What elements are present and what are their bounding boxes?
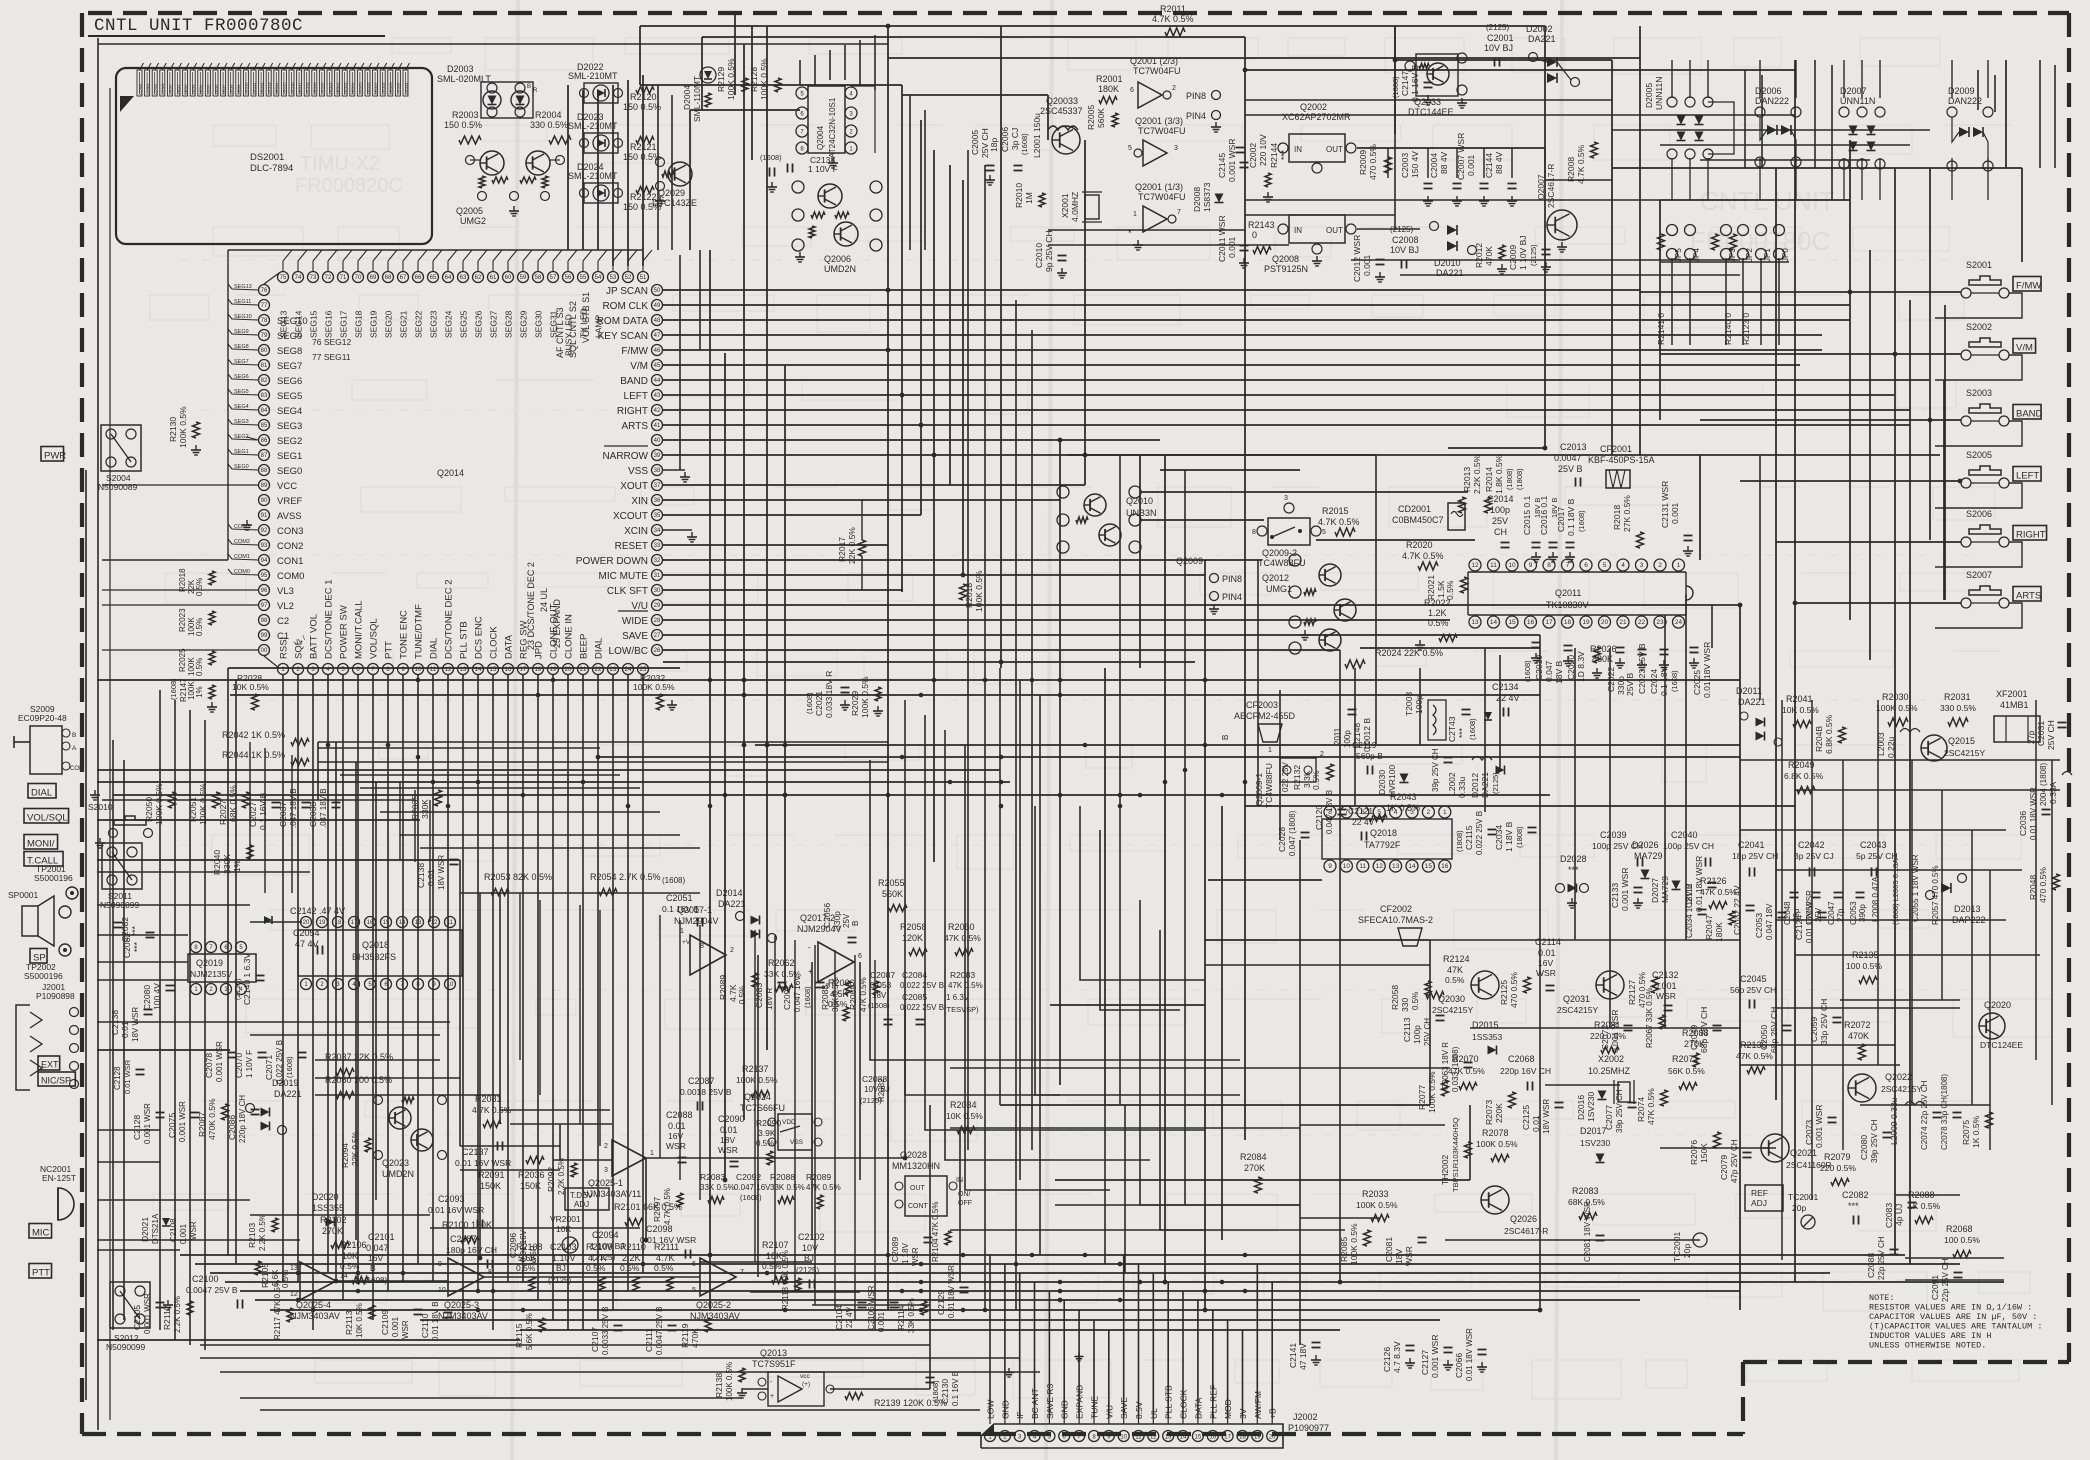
capacitor C2062 22p [1583, 1201, 1605, 1262]
svg-text:14: 14 [1408, 863, 1416, 870]
svg-text:R2060: R2060 [948, 922, 975, 932]
svg-text:ADJ: ADJ [574, 1200, 589, 1209]
svg-text:0.001: 0.001 [391, 1316, 400, 1337]
svg-text:R2004: R2004 [535, 110, 562, 120]
resistor R2031 [1940, 692, 1976, 726]
resistor R2141 0 [1656, 313, 1666, 345]
resistor R2144 [1263, 143, 1289, 202]
svg-text:18V B: 18V B [1533, 498, 1542, 518]
svg-text:220p 16V CH: 220p 16V CH [1500, 1066, 1551, 1076]
svg-text:4: 4 [1394, 809, 1398, 816]
svg-text:32: 32 [654, 558, 661, 564]
transistor Q20033 2SC45337 [1040, 96, 1083, 154]
svg-text:4.7 8.3V: 4.7 8.3V [1392, 1341, 1402, 1373]
svg-text:C2074 22p 25V CH: C2074 22p 25V CH [1920, 1080, 1929, 1150]
IC Q2011 TK10830V [1468, 559, 1693, 628]
svg-text:330 0.5%: 330 0.5% [1940, 703, 1976, 713]
svg-text:CNTL UNIT FR000780C: CNTL UNIT FR000780C [94, 16, 303, 36]
svg-text:WSR: WSR [401, 1320, 410, 1339]
title CNTL UNIT FR000780C [88, 16, 888, 44]
svg-text:0.001 WSR: 0.001 WSR [1430, 1335, 1440, 1378]
svg-text:SEG2: SEG2 [277, 436, 302, 447]
svg-text:39p 25V CH: 39p 25V CH [1615, 1089, 1624, 1133]
capacitor C2141 47 [1288, 1343, 1321, 1371]
svg-text:UMG2: UMG2 [460, 216, 486, 226]
svg-text:(1608): (1608) [760, 153, 782, 162]
resistor R2123 0 [1741, 313, 1751, 345]
svg-text:R2024 22K 0.5%: R2024 22K 0.5% [1375, 648, 1443, 658]
diode D2026 MA729 [1632, 840, 1663, 879]
svg-text:TC7W04FU: TC7W04FU [1133, 66, 1181, 76]
svg-text:18V WSR: 18V WSR [1542, 1099, 1551, 1134]
svg-text:CF2002: CF2002 [1380, 904, 1412, 914]
diode D2021 [140, 1213, 198, 1244]
svg-text:VSS: VSS [628, 466, 648, 477]
svg-text:10: 10 [1120, 1435, 1127, 1441]
svg-text:A: A [72, 745, 77, 752]
svg-text:VR2001: VR2001 [550, 1214, 581, 1224]
svg-text:NOTE:: NOTE: [1869, 1293, 1895, 1303]
svg-text:C2111: C2111 [644, 1328, 654, 1352]
capacitor C2100 [186, 1274, 243, 1309]
capacitor C2040 [1663, 830, 1714, 867]
svg-text:2SC4215Y: 2SC4215Y [1557, 1005, 1598, 1015]
svg-text:180K: 180K [1098, 84, 1119, 94]
svg-text:0.001: 0.001 [877, 1311, 886, 1332]
svg-text:D2006: D2006 [1755, 86, 1782, 96]
node Q2009 PIN8 [1176, 556, 1242, 584]
svg-text:R2062: R2062 [768, 958, 795, 968]
capacitor C2070 [234, 1050, 267, 1078]
svg-text:63: 63 [460, 275, 467, 281]
svg-text:C2040: C2040 [1671, 830, 1698, 840]
resistor R2014 [1484, 454, 1524, 513]
svg-text:EXT: EXT [41, 1060, 59, 1070]
svg-text:Q2004: Q2004 [816, 125, 825, 150]
svg-text:93: 93 [261, 543, 268, 549]
wire mid horizontals [97, 448, 1940, 1180]
svg-text:C2101: C2101 [368, 1232, 395, 1242]
svg-text:R2025: R2025 [178, 648, 187, 672]
svg-text:46: 46 [654, 348, 661, 354]
svg-text:DCS/TONE DEC 2: DCS/TONE DEC 2 [444, 579, 455, 659]
svg-text:***: *** [1279, 149, 1289, 160]
svg-text:0.047 18V: 0.047 18V [1765, 903, 1774, 940]
resistor R2001 [1096, 74, 1123, 104]
svg-text:(1608): (1608) [662, 876, 685, 885]
svg-text:ARTS: ARTS [622, 421, 649, 432]
capacitor C2082c [114, 917, 141, 942]
capacitor C2083 4p [1884, 1203, 1917, 1229]
svg-text:0.01: 0.01 [720, 1125, 738, 1135]
svg-text:C2071: C2071 [264, 1055, 274, 1080]
svg-text:UMD2N: UMD2N [382, 1169, 414, 1179]
wire center-bottom horizontals 2 [97, 1068, 2004, 1410]
svg-text:Q2026: Q2026 [1510, 1214, 1537, 1224]
svg-text:54: 54 [595, 275, 602, 281]
resistor R2049 [1784, 760, 1824, 794]
svg-text:2: 2 [1427, 809, 1431, 816]
svg-text:C2094: C2094 [592, 1230, 619, 1240]
svg-text:NJM2135V: NJM2135V [190, 969, 232, 979]
diode array D2007 UNN11N [1839, 86, 1885, 169]
resistor R2004 [530, 110, 571, 144]
svg-text:76 SEG12: 76 SEG12 [312, 337, 351, 347]
svg-text:1%: 1% [233, 860, 242, 872]
svg-text:C2082: C2082 [120, 917, 130, 942]
inverter Q2001 1/3 TC7W04FU [1128, 182, 1186, 250]
svg-text:10.25MHZ: 10.25MHZ [1588, 1066, 1631, 1076]
svg-text:TC7W04FU: TC7W04FU [1138, 192, 1186, 202]
svg-text:1: 1 [1133, 211, 1137, 218]
svg-text:SEG21: SEG21 [399, 310, 409, 338]
svg-text:C2053: C2053 [1754, 913, 1764, 938]
svg-text:3p 25V CJ: 3p 25V CJ [1794, 851, 1834, 861]
crystal filter XF2001 41MB1 [1994, 689, 2040, 742]
capacitor C2032 22 4V [1732, 885, 1755, 935]
diode D2028 [1556, 854, 1589, 908]
svg-text:C2144: C2144 [1484, 153, 1494, 178]
svg-text:MIC: MIC [32, 1228, 50, 1239]
svg-text:L2002: L2002 [1447, 772, 1457, 796]
svg-text:6: 6 [858, 953, 862, 960]
svg-text:Q2025-3: Q2025-3 [444, 1300, 479, 1310]
svg-text:C2010: C2010 [1034, 243, 1044, 268]
svg-text:D2021: D2021 [140, 1217, 150, 1242]
svg-text:R2018: R2018 [178, 568, 187, 592]
svg-text:100K 0.5%: 100K 0.5% [1349, 1223, 1359, 1265]
svg-text:16: 16 [1527, 619, 1535, 626]
svg-text:D2014: D2014 [716, 888, 743, 898]
svg-text:5: 5 [1603, 562, 1607, 569]
svg-text:2004 (1808): 2004 (1808) [2039, 763, 2048, 806]
svg-text:R2009: R2009 [1358, 150, 1368, 175]
capacitor C2010 [1034, 230, 1067, 278]
svg-text:SEG6: SEG6 [277, 376, 302, 387]
mic NC2001 EM-125T [40, 1164, 76, 1220]
svg-text:C2145: C2145 [1217, 153, 1227, 178]
resistor R2024 [1345, 648, 1443, 668]
svg-text:WIDE: WIDE [622, 616, 648, 627]
svg-text:XOUT: XOUT [620, 481, 648, 492]
svg-text:7: 7 [1177, 209, 1181, 216]
capacitor C2106 [867, 1285, 899, 1332]
svg-text:DAN222: DAN222 [1948, 96, 1982, 106]
svg-text:0.001: 0.001 [179, 1223, 188, 1244]
svg-text:FR000780C: FR000780C [1690, 226, 1830, 256]
svg-text:RSSI: RSSI [279, 637, 290, 659]
svg-text:0.0018 25V B: 0.0018 25V B [680, 1087, 732, 1097]
switch S2012 N5090099 [106, 1282, 173, 1352]
svg-text:C2078 33p CH(1808): C2078 33p CH(1808) [1940, 1074, 1949, 1150]
resistor R2046 6.8K [1814, 714, 1846, 754]
filter CF2003 AECFM2-455D [1221, 700, 1296, 742]
capacitor C2138a [416, 855, 459, 890]
svg-text:83: 83 [261, 393, 268, 399]
svg-text:470K: 470K [1848, 1031, 1869, 1041]
capacitor C2037 [278, 788, 311, 828]
svg-text:D2020: D2020 [312, 1192, 339, 1202]
svg-text:R204B: R204B [1814, 726, 1824, 752]
svg-text:R2012: R2012 [1474, 243, 1484, 268]
capacitor C2006 [1000, 127, 1029, 171]
resistor R2047 180K [1704, 911, 1735, 942]
svg-text:27K 0.5%: 27K 0.5% [1622, 495, 1632, 532]
svg-text:D2028: D2028 [1560, 854, 1587, 864]
svg-text:10: 10 [1508, 562, 1516, 569]
svg-text:15: 15 [383, 920, 390, 926]
switch S2007 [1935, 570, 2041, 628]
svg-text:71: 71 [340, 275, 347, 281]
svg-text:R2125: R2125 [1499, 980, 1509, 1005]
svg-text:0.047 (1808): 0.047 (1808) [1288, 810, 1297, 856]
svg-text:CF2001: CF2001 [1600, 444, 1632, 454]
svg-text:98: 98 [261, 618, 268, 624]
svg-text:13: 13 [1471, 619, 1479, 626]
resistor R2108 5.6K [516, 1242, 543, 1291]
svg-text:1 10V F: 1 10V F [808, 164, 838, 174]
svg-text:47p 25V CH: 47p 25V CH [1730, 1139, 1739, 1183]
svg-text:SEG30: SEG30 [534, 310, 544, 338]
resistor R2013 [1459, 454, 1483, 513]
resistor R2003 [444, 110, 482, 144]
svg-text:Q2009: Q2009 [1176, 556, 1203, 566]
box MIC [29, 1224, 52, 1239]
svg-text:C2081: C2081 [1384, 1237, 1394, 1262]
inverter Q2001 2/3 TC7W04FU [1130, 56, 1181, 108]
svg-text:22: 22 [1638, 619, 1646, 626]
svg-text:XCOUT: XCOUT [613, 511, 648, 522]
svg-text:(+): (+) [802, 1381, 810, 1388]
resistor R2032 [633, 673, 677, 710]
svg-text:ROM CLK: ROM CLK [602, 301, 648, 312]
svg-text:SEG17: SEG17 [339, 310, 349, 338]
svg-text:44: 44 [654, 378, 661, 384]
diode D2013 DAP222 [1926, 874, 1986, 926]
svg-text:SEG27: SEG27 [489, 310, 499, 338]
svg-text:SEG4: SEG4 [277, 406, 302, 417]
svg-text:PTT: PTT [32, 1268, 50, 1279]
svg-text:1 10V BJ: 1 10V BJ [590, 1241, 625, 1251]
svg-text:C2028: C2028 [1277, 827, 1287, 852]
diode D2002 DA221 [1526, 24, 1580, 87]
svg-text:AVSS: AVSS [277, 511, 302, 522]
testpoint TP2001 S5000196 [34, 864, 78, 899]
svg-text:13: 13 [1165, 1435, 1172, 1441]
svg-text:X2002: X2002 [1598, 1054, 1624, 1064]
resistor R2050 [144, 783, 176, 825]
box REF ADJ [1745, 1185, 1783, 1211]
svg-text:180K: 180K [1714, 922, 1724, 942]
svg-text:R2054 2.7K 0.5%: R2054 2.7K 0.5% [590, 872, 661, 882]
svg-text:R2005: R2005 [1086, 105, 1096, 130]
svg-text:24 UL: 24 UL [539, 588, 549, 612]
opamp Q2025-3 NJM3403AV [438, 1258, 492, 1321]
transistor Q2021 2SC41160R [1761, 1134, 1832, 1170]
wire center-bottom verticals [1000, 455, 1686, 1345]
svg-text:Q2025-1: Q2025-1 [588, 1178, 623, 1188]
svg-text:0.001: 0.001 [1362, 254, 1372, 276]
svg-text:C2147: C2147 [1400, 71, 1410, 96]
diode D2015 1SS353 [1472, 1020, 1503, 1055]
svg-text:72: 72 [325, 275, 332, 281]
svg-text:15: 15 [1195, 1435, 1202, 1441]
svg-text:R2017: R2017 [837, 537, 847, 562]
svg-text:S2010: S2010 [88, 802, 113, 812]
svg-text:C2109: C2109 [380, 1310, 390, 1335]
svg-text:3: 3 [1410, 809, 1414, 816]
diode D2027 MA729 [1650, 876, 1681, 903]
svg-text:SEG15: SEG15 [309, 310, 319, 338]
svg-text:R2068: R2068 [1946, 1224, 1973, 1234]
svg-text:9p 25V CH: 9p 25V CH [1044, 230, 1054, 272]
svg-text:(1608): (1608) [803, 986, 812, 1008]
switch S2005 [1935, 450, 2041, 508]
svg-text:PIN8: PIN8 [1222, 574, 1242, 584]
diode array D2006 DAN222 [1755, 86, 1801, 167]
svg-text:C2089: C2089 [890, 1237, 900, 1262]
svg-text:470 0.5%: 470 0.5% [1509, 972, 1519, 1008]
capacitor C2137 [455, 1142, 511, 1169]
svg-text:C2130: C2130 [940, 1379, 950, 1404]
resistor R2137 100K [736, 1064, 778, 1098]
resistor R2005 560K [1086, 105, 1118, 130]
svg-text:R2047: R2047 [1704, 915, 1714, 940]
svg-text:1: 1 [650, 1150, 654, 1157]
resistor R2079 [1820, 1152, 1856, 1186]
svg-text:D2016: D2016 [1576, 1095, 1586, 1120]
resistor R2066 4.5K [828, 978, 855, 1021]
svg-text:Q2017-1: Q2017-1 [677, 905, 712, 915]
svg-text:21: 21 [1619, 619, 1627, 626]
transistor Q2022 2SC4215Y [1848, 1072, 1922, 1102]
svg-text:J2002: J2002 [1293, 1412, 1318, 1422]
svg-text:JP0: JP0 [1781, 248, 1790, 262]
svg-text:18V WSR: 18V WSR [131, 1007, 140, 1042]
svg-text:R: R [533, 88, 538, 94]
svg-text:R2033: R2033 [1362, 1189, 1389, 1199]
svg-text:C2127: C2127 [1420, 1350, 1430, 1375]
svg-text:16V: 16V [668, 1131, 683, 1141]
svg-text:UNN11N: UNN11N [1840, 96, 1875, 106]
svg-text:69: 69 [370, 275, 377, 281]
svg-text:18V B: 18V B [1550, 498, 1559, 518]
svg-text:0.1 16V B: 0.1 16V B [951, 1371, 960, 1406]
jack J2001 P1090898 [16, 982, 79, 1090]
resistor R2127 [1627, 972, 1659, 1008]
svg-text:75: 75 [280, 275, 287, 281]
capacitor C2008b [1390, 225, 1419, 269]
svg-text:UNLESS OTHERWISE NOTED.: UNLESS OTHERWISE NOTED. [1869, 1341, 1986, 1351]
svg-text:BAND: BAND [620, 376, 648, 387]
wire MCU right pin horizontals [663, 290, 1929, 662]
svg-text:18p 25V CH: 18p 25V CH [1732, 851, 1778, 861]
resistor R2089b 47K [848, 977, 879, 1012]
switch Q2009-1 TC4W88FU [1254, 747, 1324, 808]
svg-text:96: 96 [261, 588, 268, 594]
svg-text:C2091: C2091 [1930, 1275, 1940, 1300]
svg-text:4.7K 0.5%: 4.7K 0.5% [663, 1188, 672, 1225]
transformer T2003 [1404, 692, 1446, 740]
svg-text:SEG0: SEG0 [277, 466, 302, 477]
svg-text:5: 5 [1128, 145, 1132, 152]
svg-text:Q2019: Q2019 [196, 958, 223, 968]
svg-text:SEG24: SEG24 [444, 310, 454, 338]
svg-text:MONI/T.CALL: MONI/T.CALL [354, 600, 365, 659]
svg-text:SQL: SQL [294, 640, 305, 659]
svg-text:SEG7: SEG7 [277, 361, 302, 372]
svg-text:+V: +V [682, 939, 691, 946]
transistor pair Q2023 UMD2N [374, 1096, 447, 1180]
LCD display DS2001 DLC-7894 [116, 63, 432, 244]
switch S2001 [1935, 260, 2041, 318]
svg-text:***: *** [1568, 865, 1579, 875]
svg-text:0.5%: 0.5% [1445, 975, 1465, 985]
svg-text:DATA: DATA [504, 634, 515, 659]
svg-text:0.01 18V WSR: 0.01 18V WSR [1702, 642, 1712, 698]
svg-text:C2066: C2066 [1454, 1353, 1464, 1378]
capacitor C2045 [1730, 974, 1776, 1009]
svg-text:47K 0.5%: 47K 0.5% [944, 933, 981, 943]
svg-text:S2001: S2001 [1966, 260, 1992, 270]
svg-text:R2057 470 0.5%: R2057 470 0.5% [1931, 865, 1940, 925]
svg-text:C2047: C2047 [1827, 901, 1836, 925]
svg-text:1 6.3V: 1 6.3V [946, 993, 970, 1002]
svg-text:17: 17 [1545, 619, 1553, 626]
resistor R2089 4.7K [718, 973, 758, 1004]
svg-text:SEG5: SEG5 [277, 391, 302, 402]
svg-text:N5090089: N5090089 [98, 482, 138, 492]
svg-text:JP SCAN: JP SCAN [606, 286, 648, 297]
capacitor C2112 [1684, 856, 1717, 912]
svg-text:0.5%: 0.5% [195, 658, 204, 676]
svg-text:INDUCTOR VALUES ARE IN H: INDUCTOR VALUES ARE IN H [1869, 1331, 1991, 1341]
inductor L2009 [1889, 1097, 1925, 1145]
capacitor bank C2015 C2016 C2017 [1522, 496, 1586, 562]
svg-text:1 18V B: 1 18V B [1504, 821, 1514, 852]
svg-text:R2127: R2127 [1627, 980, 1637, 1005]
svg-text:0.022 25V B: 0.022 25V B [900, 1003, 944, 1012]
svg-text:1K 0.5%: 1K 0.5% [1908, 1201, 1941, 1211]
wire MCU left bus [102, 250, 258, 650]
svg-text:34: 34 [654, 528, 661, 534]
svg-text:C2128: C2128 [132, 1115, 142, 1140]
svg-text:12: 12 [1150, 1435, 1157, 1441]
svg-text:53: 53 [610, 275, 617, 281]
svg-text:R2113: R2113 [344, 1310, 354, 1335]
capacitor C2082b [1842, 1190, 1869, 1225]
svg-text:33p 25V CH: 33p 25V CH [1819, 999, 1829, 1045]
svg-text:SEG16: SEG16 [324, 310, 334, 338]
wire right-bottom grid [1540, 700, 2060, 1282]
svg-text:9: 9 [1328, 863, 1332, 870]
IC Q2028 MM1320HN [892, 1150, 972, 1216]
svg-text:SEG28: SEG28 [504, 310, 514, 338]
svg-text:0.001 WSR: 0.001 WSR [143, 1103, 152, 1144]
svg-text:0.022 25V B: 0.022 25V B [900, 981, 944, 990]
svg-text:R2034: R2034 [950, 1100, 977, 1110]
svg-text:0.5%: 0.5% [195, 578, 204, 596]
svg-text:C2115: C2115 [1464, 825, 1474, 850]
svg-text:SML-210MT: SML-210MT [568, 171, 618, 181]
svg-text:R2097: R2097 [652, 1197, 662, 1222]
svg-text:C2012 WSR: C2012 WSR [1352, 235, 1362, 282]
svg-text:1SV230: 1SV230 [1586, 1091, 1596, 1122]
opamp Q2025-1 NJM3403AV [582, 1140, 654, 1199]
svg-text:R2090: R2090 [756, 1118, 781, 1128]
svg-text:1 10V BJ: 1 10V BJ [1518, 236, 1528, 271]
svg-text:C2105: C2105 [132, 1305, 142, 1330]
